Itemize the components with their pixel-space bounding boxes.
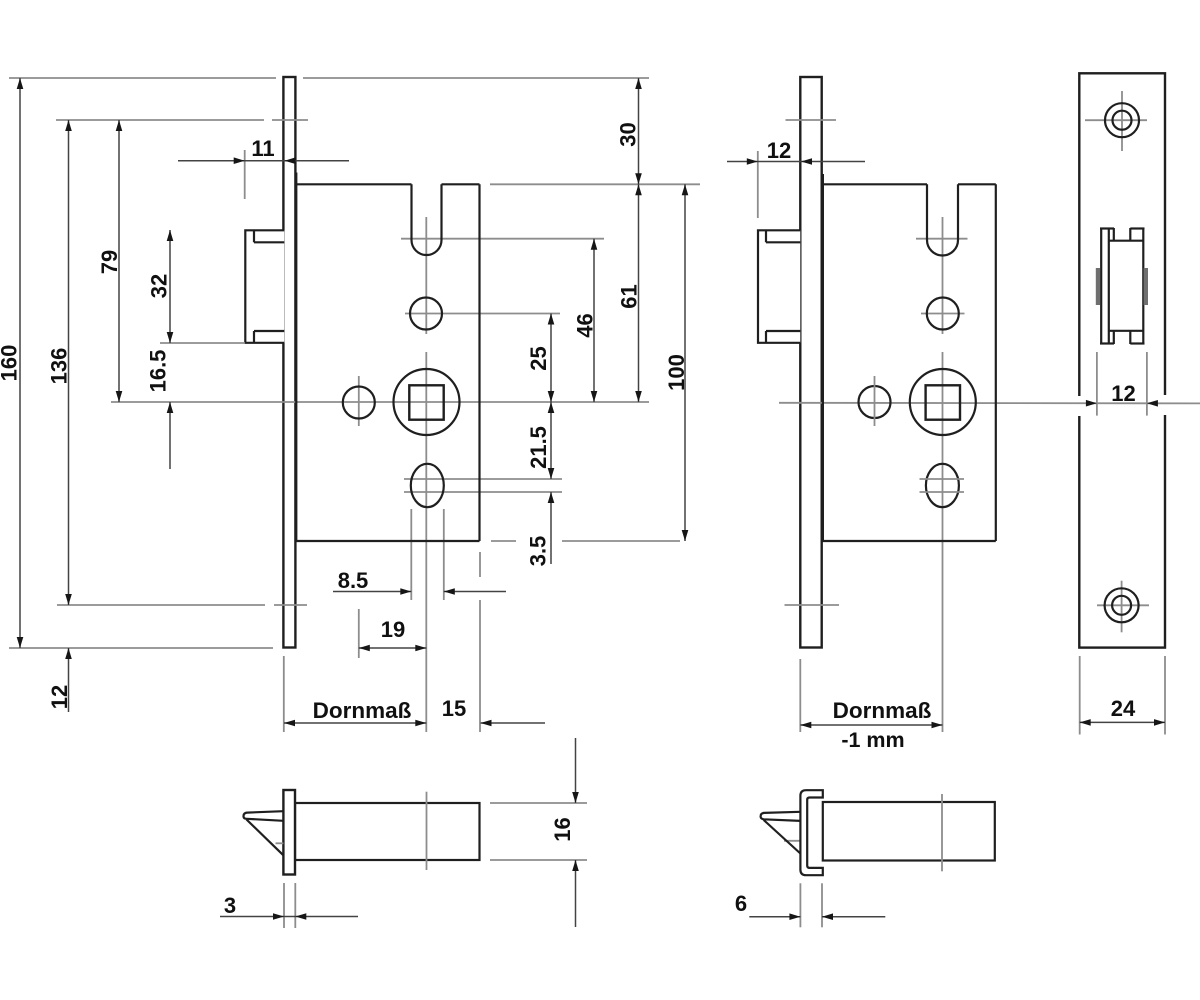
- ext line body bottom y541: [491, 540, 516, 542]
- bottom-right latch bolt wedge diagonal: [764, 820, 801, 854]
- ext line top hole centre y313.5: [405, 313, 560, 315]
- dim line 12 bottom-left tail: [68, 648, 70, 712]
- arrow 100 top: [682, 184, 689, 195]
- middle small hole: [859, 386, 891, 418]
- ext line y605 across faceplate: [274, 604, 307, 606]
- arrow 160 bottom: [17, 637, 24, 648]
- arrow 30 bottom: [635, 173, 642, 184]
- follower guide box left lock: [245, 230, 284, 342]
- ext tick x244.7 for 11 dim: [244, 150, 246, 199]
- svg-text:21.5: 21.5: [526, 426, 551, 469]
- bottom-left centre line x426.5: [426, 792, 428, 870]
- svg-text:32: 32: [147, 274, 172, 298]
- middle spindle circle: [910, 369, 976, 435]
- centre line y403 middle lock to right plate: [779, 402, 1200, 405]
- arrow 24 left: [1080, 719, 1091, 726]
- arrow 61 top: [635, 184, 642, 195]
- dim line 19: [359, 647, 427, 649]
- left spindle square: [409, 385, 443, 419]
- arrow 6 left-pointing: [822, 913, 833, 920]
- ext body right edge x480 down part2: [479, 600, 481, 732]
- dim line 6 left tail: [749, 916, 800, 918]
- arrow Dornmass right: [415, 720, 426, 727]
- arrow Dornmass-1mm right: [932, 722, 943, 729]
- svg-text:-1 mm: -1 mm: [841, 728, 904, 752]
- arrow 30 top: [635, 78, 642, 89]
- dim line 11: [178, 160, 349, 162]
- dim line 24: [1080, 721, 1165, 723]
- dim line 3: [220, 916, 358, 918]
- latch front: bottom edge left tab: [1100, 342, 1114, 344]
- right plate 12-dim ext x1096.9: [1096, 352, 1098, 416]
- arrow 11 left-pointing: [285, 157, 296, 164]
- arrow 79 top: [116, 120, 123, 131]
- top screw cross horizontal: [1085, 119, 1147, 121]
- arrow 8.5 left-pointing: [444, 588, 455, 595]
- middle vertical centre x942.5 lower: [942, 352, 944, 732]
- svg-text:Dornmaß: Dornmaß: [313, 698, 412, 723]
- svg-text:11: 11: [251, 136, 274, 161]
- svg-text:Dornmaß: Dornmaß: [833, 698, 932, 723]
- dim line 46: [593, 239, 595, 402]
- middle vertical centre x942.5 upper: [942, 217, 944, 334]
- svg-text:12: 12: [1111, 381, 1135, 406]
- arrow 61 bottom: [635, 391, 642, 402]
- svg-text:79: 79: [97, 250, 122, 274]
- latch front: tab inner vertical bottom left: [1113, 332, 1115, 345]
- follower guide box middle lock: [758, 230, 800, 342]
- bottom-right 6-dim tick x822: [821, 883, 823, 927]
- svg-text:30: 30: [616, 122, 641, 146]
- arrow 21.5 bottom: [548, 468, 555, 479]
- svg-text:19: 19: [381, 617, 405, 642]
- arrow 11 right-pointing: [234, 157, 245, 164]
- faceplate (Stulp) left lock, side view: [283, 77, 295, 648]
- bottom-left latch bolt wedge diagonal: [247, 820, 284, 856]
- arrow Dornmass-1mm left: [800, 722, 811, 729]
- dim line 61: [638, 184, 640, 402]
- bottom-left latch body side view: [295, 803, 480, 860]
- latch front: bottom edge right tab: [1130, 342, 1144, 344]
- arrow 32 top: [167, 230, 174, 241]
- right plate 12-dim ext x1146.9: [1146, 352, 1148, 416]
- small hole tick x358.8: [358, 376, 360, 426]
- arrow 12 plate right-pointing: [1086, 400, 1097, 407]
- ext body right edge x480 down part1: [479, 552, 481, 577]
- latch front: horizontal y240.7: [1109, 240, 1144, 242]
- latch front grey side bar right: [1144, 268, 1148, 305]
- svg-text:3: 3: [224, 893, 236, 918]
- ext tick x358.8 for 19 dim: [358, 609, 360, 658]
- right plate bottom screw inner: [1112, 596, 1131, 615]
- ext line y120 (136/79): [56, 119, 264, 121]
- middle ext latch notch centre y239: [916, 238, 968, 240]
- arrow 15 left-pointing: [481, 720, 492, 727]
- latch front: horizontal y330.8: [1109, 330, 1144, 332]
- arrow 136 bottom: [65, 594, 72, 605]
- arrow 160 top: [17, 78, 24, 89]
- arrow 21.5 top: [548, 402, 555, 413]
- arrow 16.5 up at centre line: [167, 402, 174, 413]
- bottom-right latch body side view: [823, 802, 995, 861]
- vertical centre line x426 lower: [425, 352, 427, 732]
- oval side ext x411.3: [410, 509, 412, 600]
- bottom screw cross vertical: [1121, 581, 1123, 633]
- right plate top screw inner: [1113, 111, 1132, 130]
- dim line 79: [118, 120, 120, 402]
- latch front grey side bar left: [1096, 268, 1100, 305]
- dim line 32: [169, 230, 171, 343]
- svg-text:61: 61: [617, 284, 642, 308]
- left box step vertical top: [253, 230, 255, 242]
- arrow 3.5 up: [548, 492, 555, 503]
- centre line y402 left lock: [111, 401, 649, 403]
- ext line box bottom y343: [160, 342, 245, 344]
- arrow 16 top down-pointing: [572, 792, 579, 803]
- bottom-left 16-dim ext bottom y860: [490, 859, 587, 861]
- dim line 8.5 right tail: [444, 591, 506, 593]
- middle lock body bottom edge: [822, 540, 996, 542]
- left lock body bottom edge: [295, 540, 479, 542]
- middle oval line y479: [920, 478, 965, 480]
- middle top hole: [927, 298, 959, 330]
- middle lock body right edge: [995, 184, 997, 541]
- arrow 46 top: [591, 239, 598, 250]
- bottom screw cross horizontal: [1097, 604, 1149, 606]
- dim line 16.5 tail: [169, 402, 171, 469]
- right plate 24-dim ext x1079.7: [1079, 656, 1081, 735]
- svg-text:25: 25: [526, 346, 551, 370]
- dim line 136: [68, 120, 70, 605]
- dim line 21.5: [550, 402, 552, 479]
- arrow 19 left: [359, 645, 370, 652]
- right plate top screw outer: [1105, 103, 1139, 137]
- middle lock body left edge: [822, 174, 824, 541]
- left oval hole: [411, 464, 444, 507]
- white gaps on right plate edges where centre line passes: [1075, 395, 1169, 416]
- arrow 16 bottom up-pointing: [572, 860, 579, 871]
- svg-text:6: 6: [735, 891, 747, 916]
- svg-text:46: 46: [573, 313, 598, 337]
- middle oval hole: [926, 464, 959, 507]
- middle lock latch notch U-slot: [927, 184, 958, 255]
- latch front: top edge right tab: [1130, 227, 1144, 229]
- bottom-right latch bolt wedge outline: [761, 812, 801, 821]
- svg-text:24: 24: [1111, 696, 1136, 721]
- ext line latch notch centre y239: [401, 238, 604, 240]
- latch front: left outer vertical: [1100, 228, 1102, 344]
- arrow 136 top: [65, 120, 72, 131]
- faceplate front view plate (right): [1079, 73, 1165, 647]
- svg-text:8.5: 8.5: [338, 568, 369, 593]
- middle ext faceplate left x800.3 down: [799, 659, 801, 732]
- faceplate middle lock, side view: [800, 77, 821, 648]
- middle lock body top edge right of notch: [958, 183, 996, 185]
- svg-text:12: 12: [47, 685, 72, 709]
- arrow 3 right-pointing: [273, 913, 284, 920]
- arrow 32 bottom: [167, 332, 174, 343]
- middle lock ext y120 across faceplate: [786, 119, 837, 121]
- middle box step vertical top: [765, 230, 767, 242]
- arrow 12 middle right-pointing: [747, 158, 758, 165]
- ext line body top y184: [490, 183, 700, 185]
- latch front: right outer vertical: [1142, 228, 1144, 344]
- ext line faceplate bottom y648: [9, 647, 273, 649]
- svg-text:12: 12: [767, 138, 791, 163]
- ext line top y78 right of faceplate to 30-dim: [303, 77, 649, 79]
- arrow 12 plate left-pointing: [1147, 400, 1158, 407]
- bottom-left 3-dim tick x284: [283, 883, 285, 928]
- latch front: left inner vertical: [1108, 228, 1110, 344]
- latch front: tab inner vertical top right: [1129, 228, 1131, 241]
- bottom-left latch hidden line: [276, 842, 284, 844]
- right plate 24-dim ext x1165: [1164, 656, 1166, 735]
- dim line 30: [638, 78, 640, 184]
- arrow 25 top: [548, 314, 555, 325]
- right plate bottom screw outer: [1105, 588, 1139, 622]
- middle lock body top edge left of notch: [823, 183, 927, 185]
- latch front: top edge left tab: [1100, 227, 1114, 229]
- bottom-right latch hidden line: [784, 840, 800, 842]
- vertical centre line x426 upper: [425, 217, 427, 334]
- arrow 8.5 right-pointing: [400, 588, 411, 595]
- middle box step vertical bottom: [765, 331, 767, 343]
- ext faceplate left x283.8 down: [283, 656, 285, 732]
- left box step horizontal bottom: [254, 330, 284, 332]
- arrow 24 right: [1154, 719, 1165, 726]
- dim line 25: [550, 314, 552, 403]
- middle box step horizontal bottom: [766, 330, 800, 332]
- latch front: tab inner vertical bottom right: [1129, 332, 1131, 345]
- arrow Dornmass left: [284, 720, 295, 727]
- left small hole: [343, 387, 375, 419]
- dim line 160: [19, 78, 21, 648]
- arrow 6 right-pointing: [789, 913, 800, 920]
- latch front: tab inner vertical top left: [1113, 228, 1115, 241]
- dim line 16 top tail: [575, 738, 577, 803]
- oval hole line y492 left: [404, 491, 562, 493]
- bottom-left faceplate bar: [283, 790, 295, 875]
- dim line 15 tail: [481, 722, 546, 724]
- left lock body right edge: [478, 184, 480, 541]
- oval hole line y479 left: [404, 478, 562, 480]
- arrow 12 bottom-left up: [65, 648, 72, 659]
- arrow 79 bottom: [116, 391, 123, 402]
- bottom-left latch bolt wedge outline: [244, 811, 284, 821]
- svg-text:16: 16: [550, 817, 575, 841]
- bottom-right centre line x942: [941, 794, 943, 871]
- svg-text:16.5: 16.5: [146, 350, 171, 393]
- left spindle circle: [394, 369, 460, 435]
- dim line 100: [684, 184, 686, 541]
- bottom-right 6-dim tick x800.4: [799, 883, 801, 927]
- ext line body bottom y541 part2: [562, 540, 680, 542]
- left top hole: [410, 298, 442, 330]
- dim line Dornmass -1mm middle: [800, 724, 942, 726]
- dim line 3.5 tail: [550, 492, 552, 564]
- left lock body top edge left of notch: [296, 183, 411, 185]
- middle lock ext y605 across faceplate: [785, 604, 840, 606]
- svg-text:100: 100: [664, 354, 689, 391]
- svg-text:160: 160: [0, 345, 22, 382]
- arrow 19 right: [415, 645, 426, 652]
- left lock body top edge right of notch: [442, 183, 480, 185]
- ext line top y78 left of faceplate: [9, 77, 276, 79]
- oval side ext x443.8: [443, 509, 445, 600]
- arrow 100 bottom: [682, 530, 689, 541]
- ext line y120 across faceplate: [272, 119, 308, 121]
- dim line 16 bottom tail: [575, 860, 577, 927]
- svg-text:136: 136: [47, 348, 72, 385]
- bottom-left 3-dim tick x295.3: [294, 883, 296, 928]
- middle box step horizontal top: [766, 241, 800, 243]
- arrow 12 middle left-pointing: [801, 158, 812, 165]
- left box step vertical bottom: [253, 331, 255, 343]
- arrow 25 bottom: [548, 391, 555, 402]
- middle top hole cross line: [921, 313, 965, 315]
- dim line 12 middle: [727, 161, 865, 163]
- left lock latch notch U-slot: [412, 184, 442, 255]
- svg-text:15: 15: [442, 696, 466, 721]
- left lock body left edge: [295, 173, 297, 542]
- middle small hole tick: [874, 376, 876, 426]
- arrow 3 left-pointing: [295, 913, 306, 920]
- dim line 6 right tail: [822, 916, 885, 918]
- ext line y605: [57, 604, 265, 606]
- dim line Dornmass left: [284, 722, 426, 724]
- dim line 8.5 left tail: [333, 591, 411, 593]
- bottom-right plastic faceplate C-profile: [800, 790, 822, 875]
- svg-text:3.5: 3.5: [526, 536, 551, 567]
- middle spindle square: [926, 385, 960, 419]
- arrow 46 bottom: [591, 391, 598, 402]
- middle ext tick x757.8 for 12 dim: [757, 151, 759, 218]
- left box step horizontal top: [254, 241, 284, 243]
- top screw cross vertical: [1121, 91, 1123, 151]
- middle oval line y492: [920, 491, 965, 493]
- bottom-left 16-dim ext top y803: [490, 802, 587, 804]
